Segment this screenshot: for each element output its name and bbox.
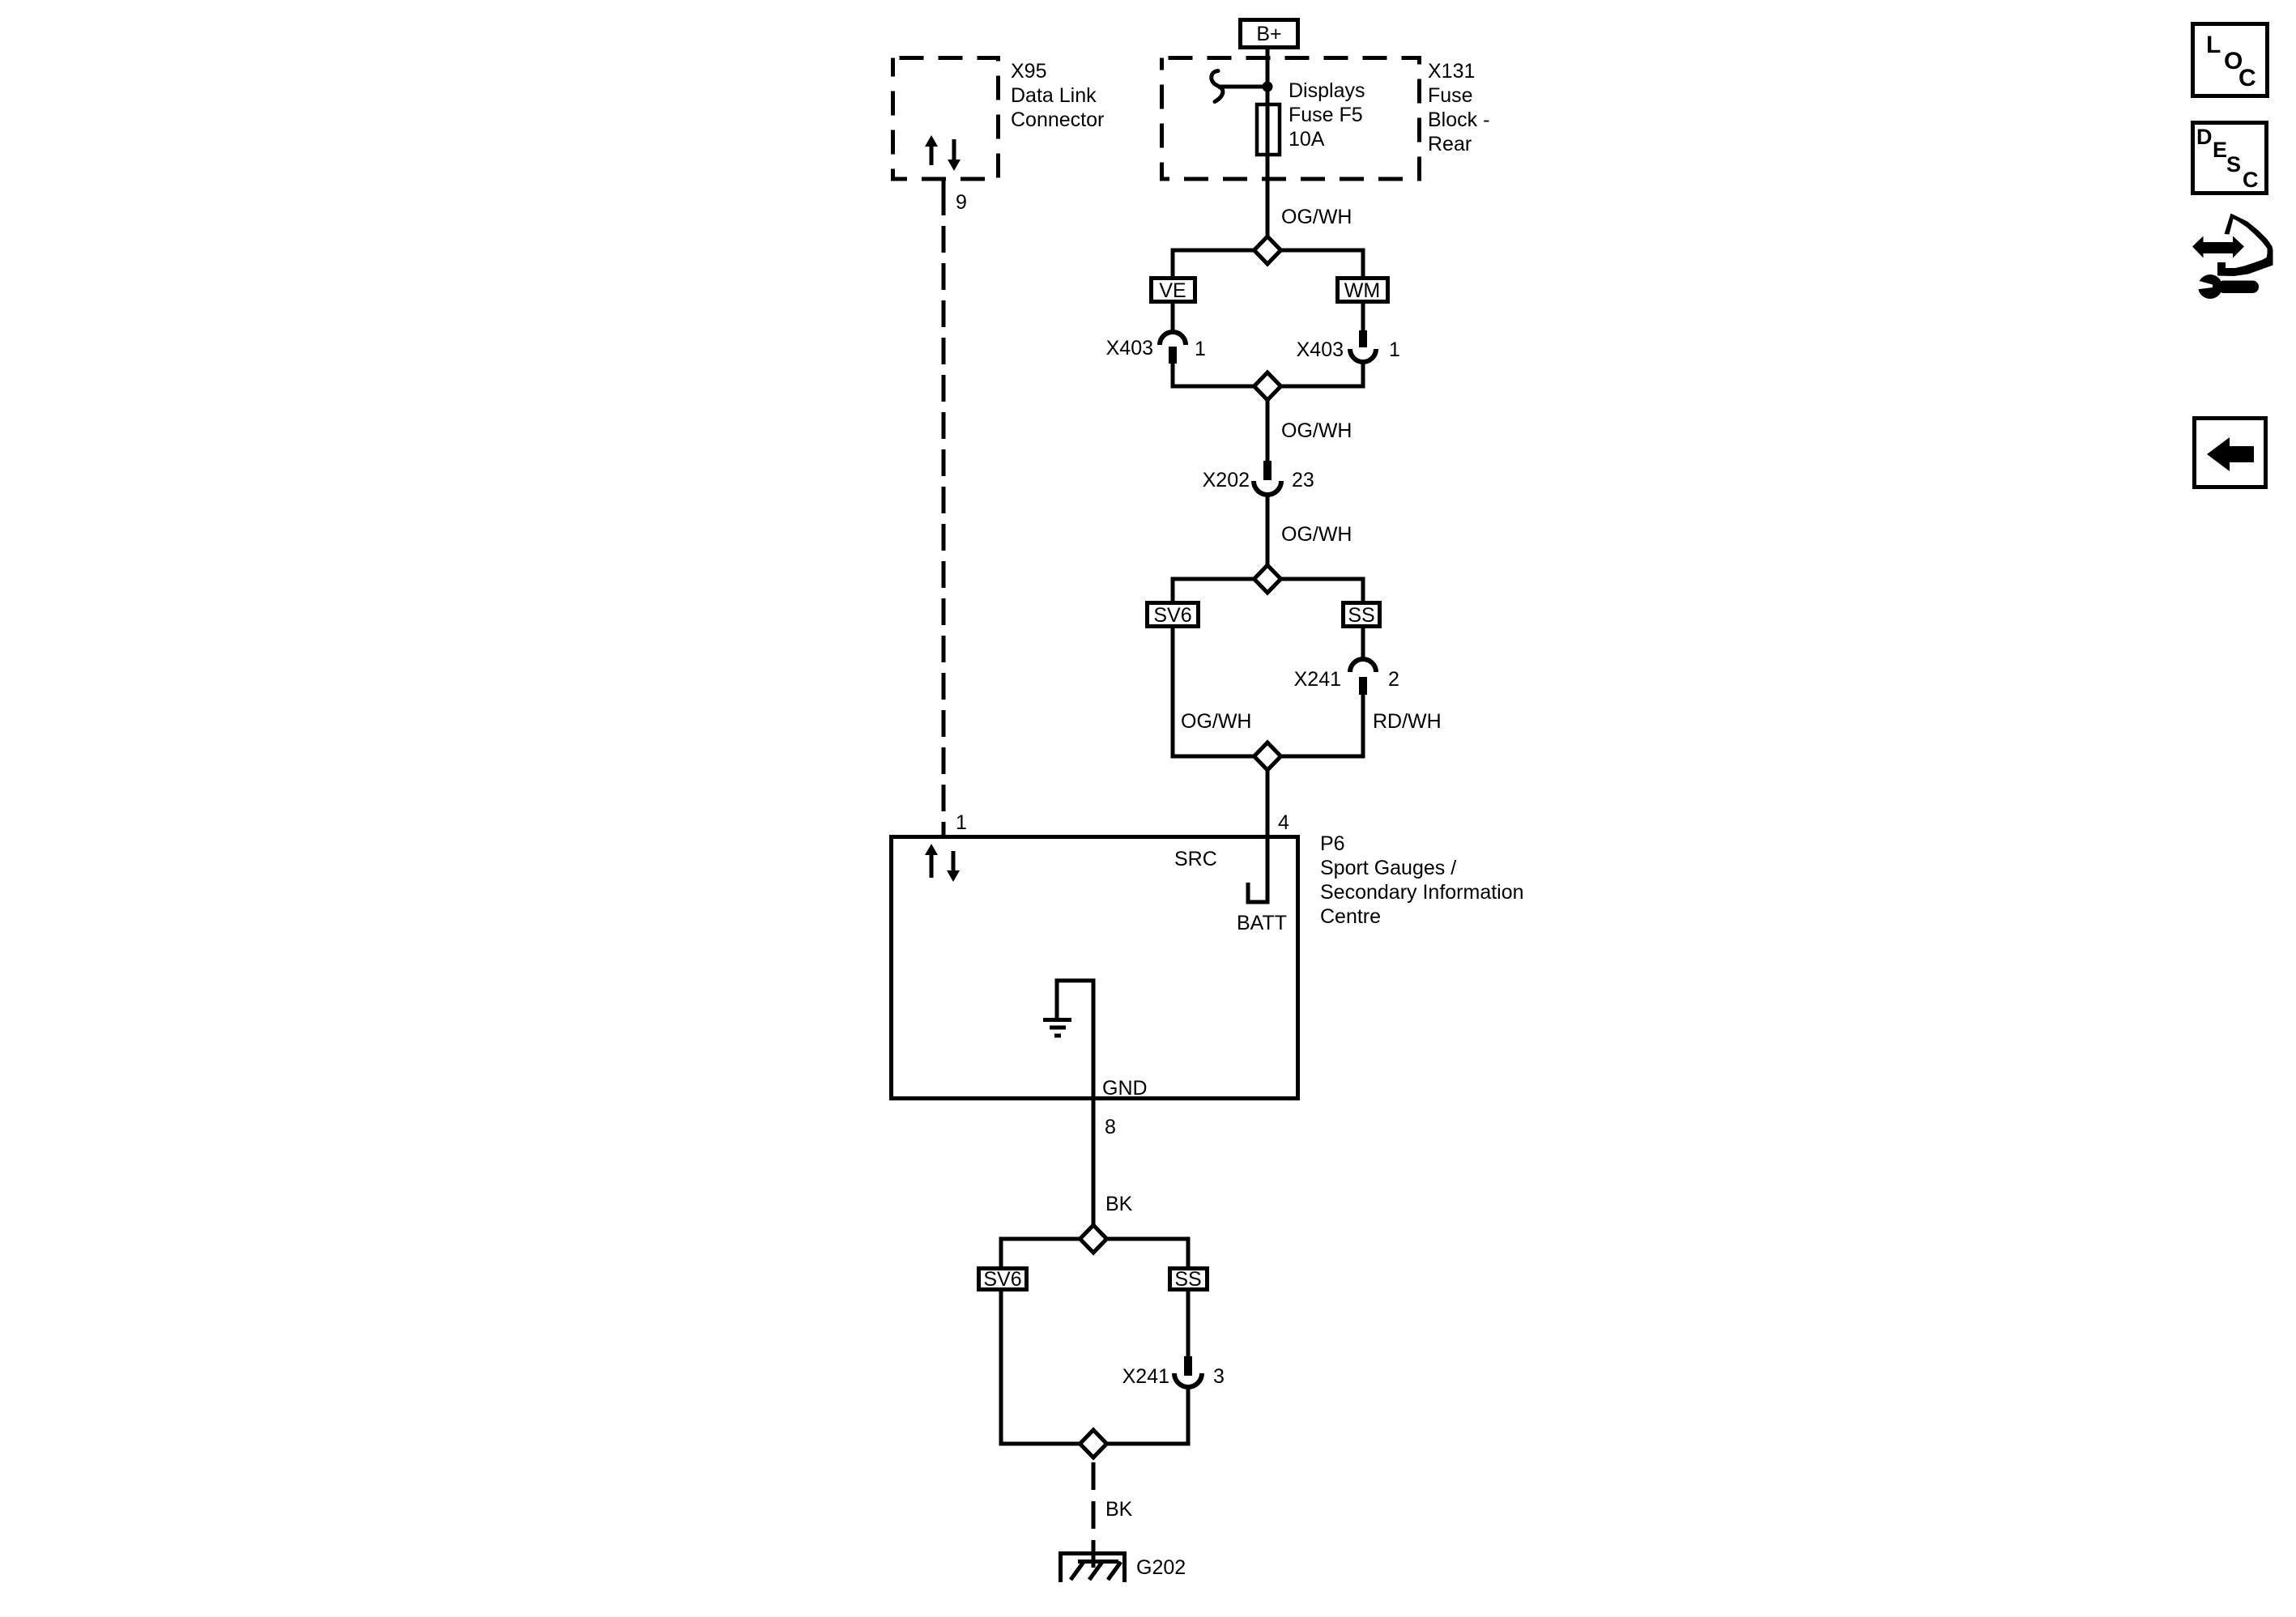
LOC icon box — [2193, 24, 2268, 96]
wire SV6 lower down to S6 — [1001, 1291, 1188, 1444]
svg-text:SV6: SV6 — [1153, 604, 1191, 627]
internal ground wire — [1057, 981, 1093, 1225]
wire WM to X403 — [1361, 304, 1365, 332]
svg-text:Data Link: Data Link — [1011, 84, 1097, 107]
svg-text:OG/WH: OG/WH — [1181, 710, 1252, 733]
wire S4 to P6 pin 4 — [1266, 770, 1270, 835]
wire splice branch S3 — [1173, 579, 1363, 603]
connector X241 lower (pin + arc) — [1184, 1356, 1192, 1376]
svg-text:23: 23 — [1292, 469, 1314, 491]
svg-text:Block -: Block - — [1428, 109, 1489, 131]
wire SS lower to X241 — [1186, 1291, 1191, 1358]
dashed wire to G202 — [1092, 1462, 1096, 1569]
svg-text:4: 4 — [1278, 811, 1289, 834]
back arrow — [2207, 437, 2254, 471]
svg-text:X241: X241 — [1294, 668, 1341, 691]
wire down to X202 — [1266, 400, 1270, 462]
svg-text:1: 1 — [956, 811, 967, 834]
wire VE to X403 — [1171, 304, 1175, 334]
svg-text:X241: X241 — [1122, 1365, 1169, 1388]
junction dot — [1263, 82, 1273, 92]
back arrow icon box — [2195, 419, 2266, 487]
svg-text:1: 1 — [1389, 338, 1400, 361]
SS lower box — [1170, 1269, 1208, 1290]
VE box — [1152, 279, 1195, 302]
pin 9 stub — [942, 179, 946, 215]
wire SV6 down to S4 — [1173, 628, 1363, 756]
svg-text:P6: P6 — [1320, 832, 1345, 855]
splice diamond S1 — [1254, 236, 1281, 264]
splice diamond S5 — [1080, 1225, 1107, 1253]
svg-text:2: 2 — [1388, 668, 1399, 691]
svg-text:Rear: Rear — [1428, 133, 1472, 155]
svg-text:X95: X95 — [1011, 60, 1046, 83]
SS box — [1344, 603, 1380, 627]
svg-text:10A: 10A — [1289, 128, 1325, 151]
svg-text:E: E — [2213, 138, 2227, 162]
SV6 box — [1148, 603, 1199, 627]
svg-text:OG/WH: OG/WH — [1281, 523, 1352, 546]
X95 down arrow — [948, 139, 961, 171]
svg-text:SRC: SRC — [1174, 848, 1217, 870]
fuse F5 symbol — [1257, 104, 1280, 155]
svg-text:X131: X131 — [1428, 60, 1475, 83]
svg-text:BATT: BATT — [1237, 912, 1287, 934]
wire X202 to S3 — [1266, 495, 1270, 565]
svg-text:BK: BK — [1105, 1193, 1133, 1215]
svg-text:1: 1 — [1195, 338, 1206, 360]
pin 4 internal wire + BATT bracket — [1248, 835, 1267, 902]
svg-text:Secondary Information: Secondary Information — [1320, 881, 1524, 904]
svg-text:OG/WH: OG/WH — [1281, 419, 1352, 442]
svg-text:WM: WM — [1344, 279, 1380, 302]
wire hook to junction — [1218, 85, 1267, 89]
B+ power node box — [1241, 20, 1298, 48]
svg-text:3: 3 — [1213, 1365, 1225, 1388]
svg-text:X202: X202 — [1203, 469, 1250, 491]
svg-text:BK: BK — [1105, 1498, 1133, 1521]
SV6 lower box — [979, 1269, 1027, 1290]
svg-text:SS: SS — [1348, 604, 1374, 627]
svg-text:Displays: Displays — [1289, 79, 1365, 102]
connector X241 upper (arc + pin) — [1350, 659, 1376, 672]
connector X403 left (arc + pin) — [1160, 332, 1186, 345]
P6 Sport Gauges module box — [892, 837, 1298, 1099]
svg-text:Fuse F5: Fuse F5 — [1289, 104, 1363, 126]
dashed wire X95 to P6 — [942, 226, 946, 835]
svg-text:C: C — [2243, 168, 2259, 192]
wire X403 left down to S2 — [1173, 362, 1363, 386]
svg-text:RD/WH: RD/WH — [1373, 710, 1442, 733]
wire SS to X241 — [1361, 628, 1365, 661]
svg-text:D: D — [2196, 125, 2213, 149]
wire splice branch S1 — [1173, 250, 1363, 278]
splice diamond S4 — [1254, 743, 1281, 770]
svg-text:S: S — [2226, 152, 2241, 177]
svg-text:X403: X403 — [1297, 338, 1344, 361]
svg-text:SV6: SV6 — [983, 1268, 1021, 1291]
svg-text:GND: GND — [1102, 1077, 1148, 1100]
svg-text:OG/WH: OG/WH — [1281, 206, 1352, 228]
P6 down arrow — [947, 851, 960, 882]
svg-text:L: L — [2206, 32, 2221, 58]
svg-text:Sport Gauges /: Sport Gauges / — [1320, 857, 1456, 879]
schematic reference icon: outline shape — [2217, 214, 2273, 277]
wire splice branch S5 — [1001, 1239, 1188, 1268]
svg-text:C: C — [2238, 65, 2256, 91]
connector X202 (pin + arc) — [1263, 461, 1272, 480]
svg-text:Fuse: Fuse — [1428, 84, 1473, 107]
svg-text:9: 9 — [956, 191, 967, 214]
wire B+ to fuse block — [1266, 49, 1270, 236]
splice diamond S6 — [1080, 1430, 1107, 1457]
circuit breaker hook symbol — [1212, 71, 1223, 102]
P6 up arrow — [925, 844, 938, 878]
connector X403 right (pin + arc) — [1359, 330, 1367, 347]
svg-text:G202: G202 — [1136, 1556, 1186, 1579]
G202 chassis ground symbol — [1059, 1551, 1127, 1555]
splice diamond S3 — [1254, 565, 1281, 593]
svg-text:X403: X403 — [1106, 337, 1153, 360]
schematic reference icon: double arrow — [2192, 236, 2244, 258]
schematic reference icon: wrench — [2198, 274, 2222, 299]
X95 up arrow — [925, 135, 938, 165]
svg-text:Connector: Connector — [1011, 109, 1104, 131]
X131 Fuse Block - Rear (dashed box) — [1162, 58, 1420, 180]
svg-text:Centre: Centre — [1320, 905, 1381, 928]
splice diamond S2 — [1254, 372, 1281, 400]
internal ground symbol — [1043, 1018, 1071, 1022]
svg-text:SS: SS — [1174, 1268, 1201, 1291]
WM box — [1338, 279, 1388, 302]
X95 Data Link Connector (dashed box) — [893, 58, 999, 180]
svg-text:B+: B+ — [1256, 23, 1281, 45]
DESC icon box — [2193, 123, 2267, 194]
svg-text:VE: VE — [1159, 279, 1186, 302]
svg-text:8: 8 — [1105, 1116, 1116, 1138]
